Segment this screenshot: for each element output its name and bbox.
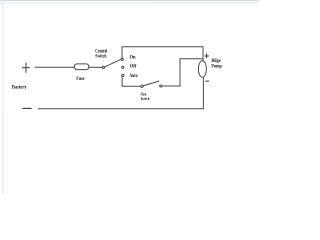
battery negative terminal -: [22, 107, 31, 109]
svg-text:Switch: Switch: [95, 55, 107, 60]
page border (decorative): [0, 0, 259, 194]
svg-text:On: On: [130, 56, 136, 61]
svg-text:Off: Off: [130, 65, 137, 70]
control switch blade: [105, 59, 122, 67]
svg-text:Switch: Switch: [141, 96, 150, 101]
wire On terminal to bilge pump plus node: [122, 47, 203, 61]
control switch Auto terminal: [122, 74, 124, 76]
control switch common terminal: [102, 66, 104, 68]
control switch Off terminal: [122, 66, 124, 68]
svg-text:Auto: Auto: [129, 74, 138, 79]
pump positive marker +: [204, 53, 209, 58]
bilge pump M1: [198, 61, 206, 77]
fuse F1: [74, 64, 89, 70]
float switch right terminal: [160, 85, 162, 87]
label Float Switch: [141, 92, 150, 102]
svg-text:Battery: Battery: [12, 85, 27, 90]
label Bilge Pump: [211, 59, 222, 69]
svg-text:Fuse: Fuse: [76, 77, 84, 82]
svg-text:Pump: Pump: [211, 64, 222, 69]
control switch On terminal: [121, 58, 123, 60]
wire pump minus to battery minus (bottom return): [38, 77, 204, 109]
wire fuse to control switch common: [89, 66, 102, 68]
wire float switch to pump plus node: [162, 59, 203, 86]
float switch left terminal: [141, 85, 143, 87]
pump negative marker -: [205, 80, 209, 82]
label Control Switch: [95, 50, 108, 60]
battery positive terminal +: [22, 63, 30, 73]
wire Auto terminal to float switch: [122, 77, 141, 87]
wire battery+ to fuse: [35, 66, 75, 68]
float switch blade: [143, 81, 159, 86]
